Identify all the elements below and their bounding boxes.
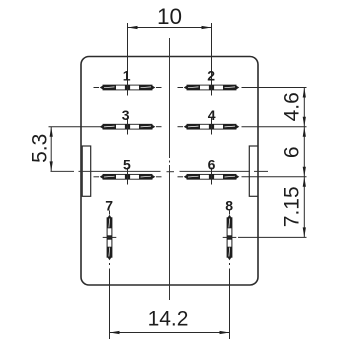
svg-text:3: 3 bbox=[122, 107, 130, 123]
right side tab bbox=[249, 146, 257, 196]
dimension 6 (right) bbox=[303, 127, 306, 177]
pin 4 bbox=[178, 118, 240, 135]
left side tab bbox=[82, 146, 91, 196]
svg-text:2: 2 bbox=[207, 68, 215, 84]
svg-text:4.6: 4.6 bbox=[281, 92, 304, 121]
dimension 10 (top) bbox=[128, 26, 212, 29]
svg-text:6: 6 bbox=[281, 146, 304, 158]
svg-text:1: 1 bbox=[123, 68, 131, 84]
dimension 4.6 (right) bbox=[303, 88, 306, 127]
pin 6 bbox=[178, 168, 240, 185]
vertical body centerline bbox=[169, 38, 171, 300]
svg-text:10: 10 bbox=[157, 4, 182, 29]
dimension 14.2 (bottom) bbox=[110, 331, 230, 334]
pin 5 bbox=[94, 168, 162, 185]
horizontal body centerline bbox=[51, 170, 269, 172]
right dimension chain extension lines bbox=[238, 88, 307, 238]
svg-text:6: 6 bbox=[208, 157, 216, 173]
pin 7 bbox=[103, 211, 117, 340]
pin 8 bbox=[223, 211, 237, 340]
relay body outline bbox=[81, 57, 258, 286]
pin 3 bbox=[100, 118, 162, 135]
svg-text:7: 7 bbox=[105, 197, 113, 213]
svg-text:14.2: 14.2 bbox=[148, 308, 189, 331]
svg-text:5: 5 bbox=[123, 157, 131, 173]
dimension 5.3 (left) bbox=[49, 127, 102, 172]
svg-text:7.15: 7.15 bbox=[281, 186, 304, 227]
svg-text:4: 4 bbox=[208, 107, 216, 123]
pin 2 bbox=[178, 23, 240, 96]
dimension 7.15 (right) bbox=[303, 177, 306, 238]
pin 1 bbox=[94, 23, 162, 96]
svg-text:8: 8 bbox=[225, 197, 233, 213]
svg-text:5.3: 5.3 bbox=[29, 134, 52, 163]
